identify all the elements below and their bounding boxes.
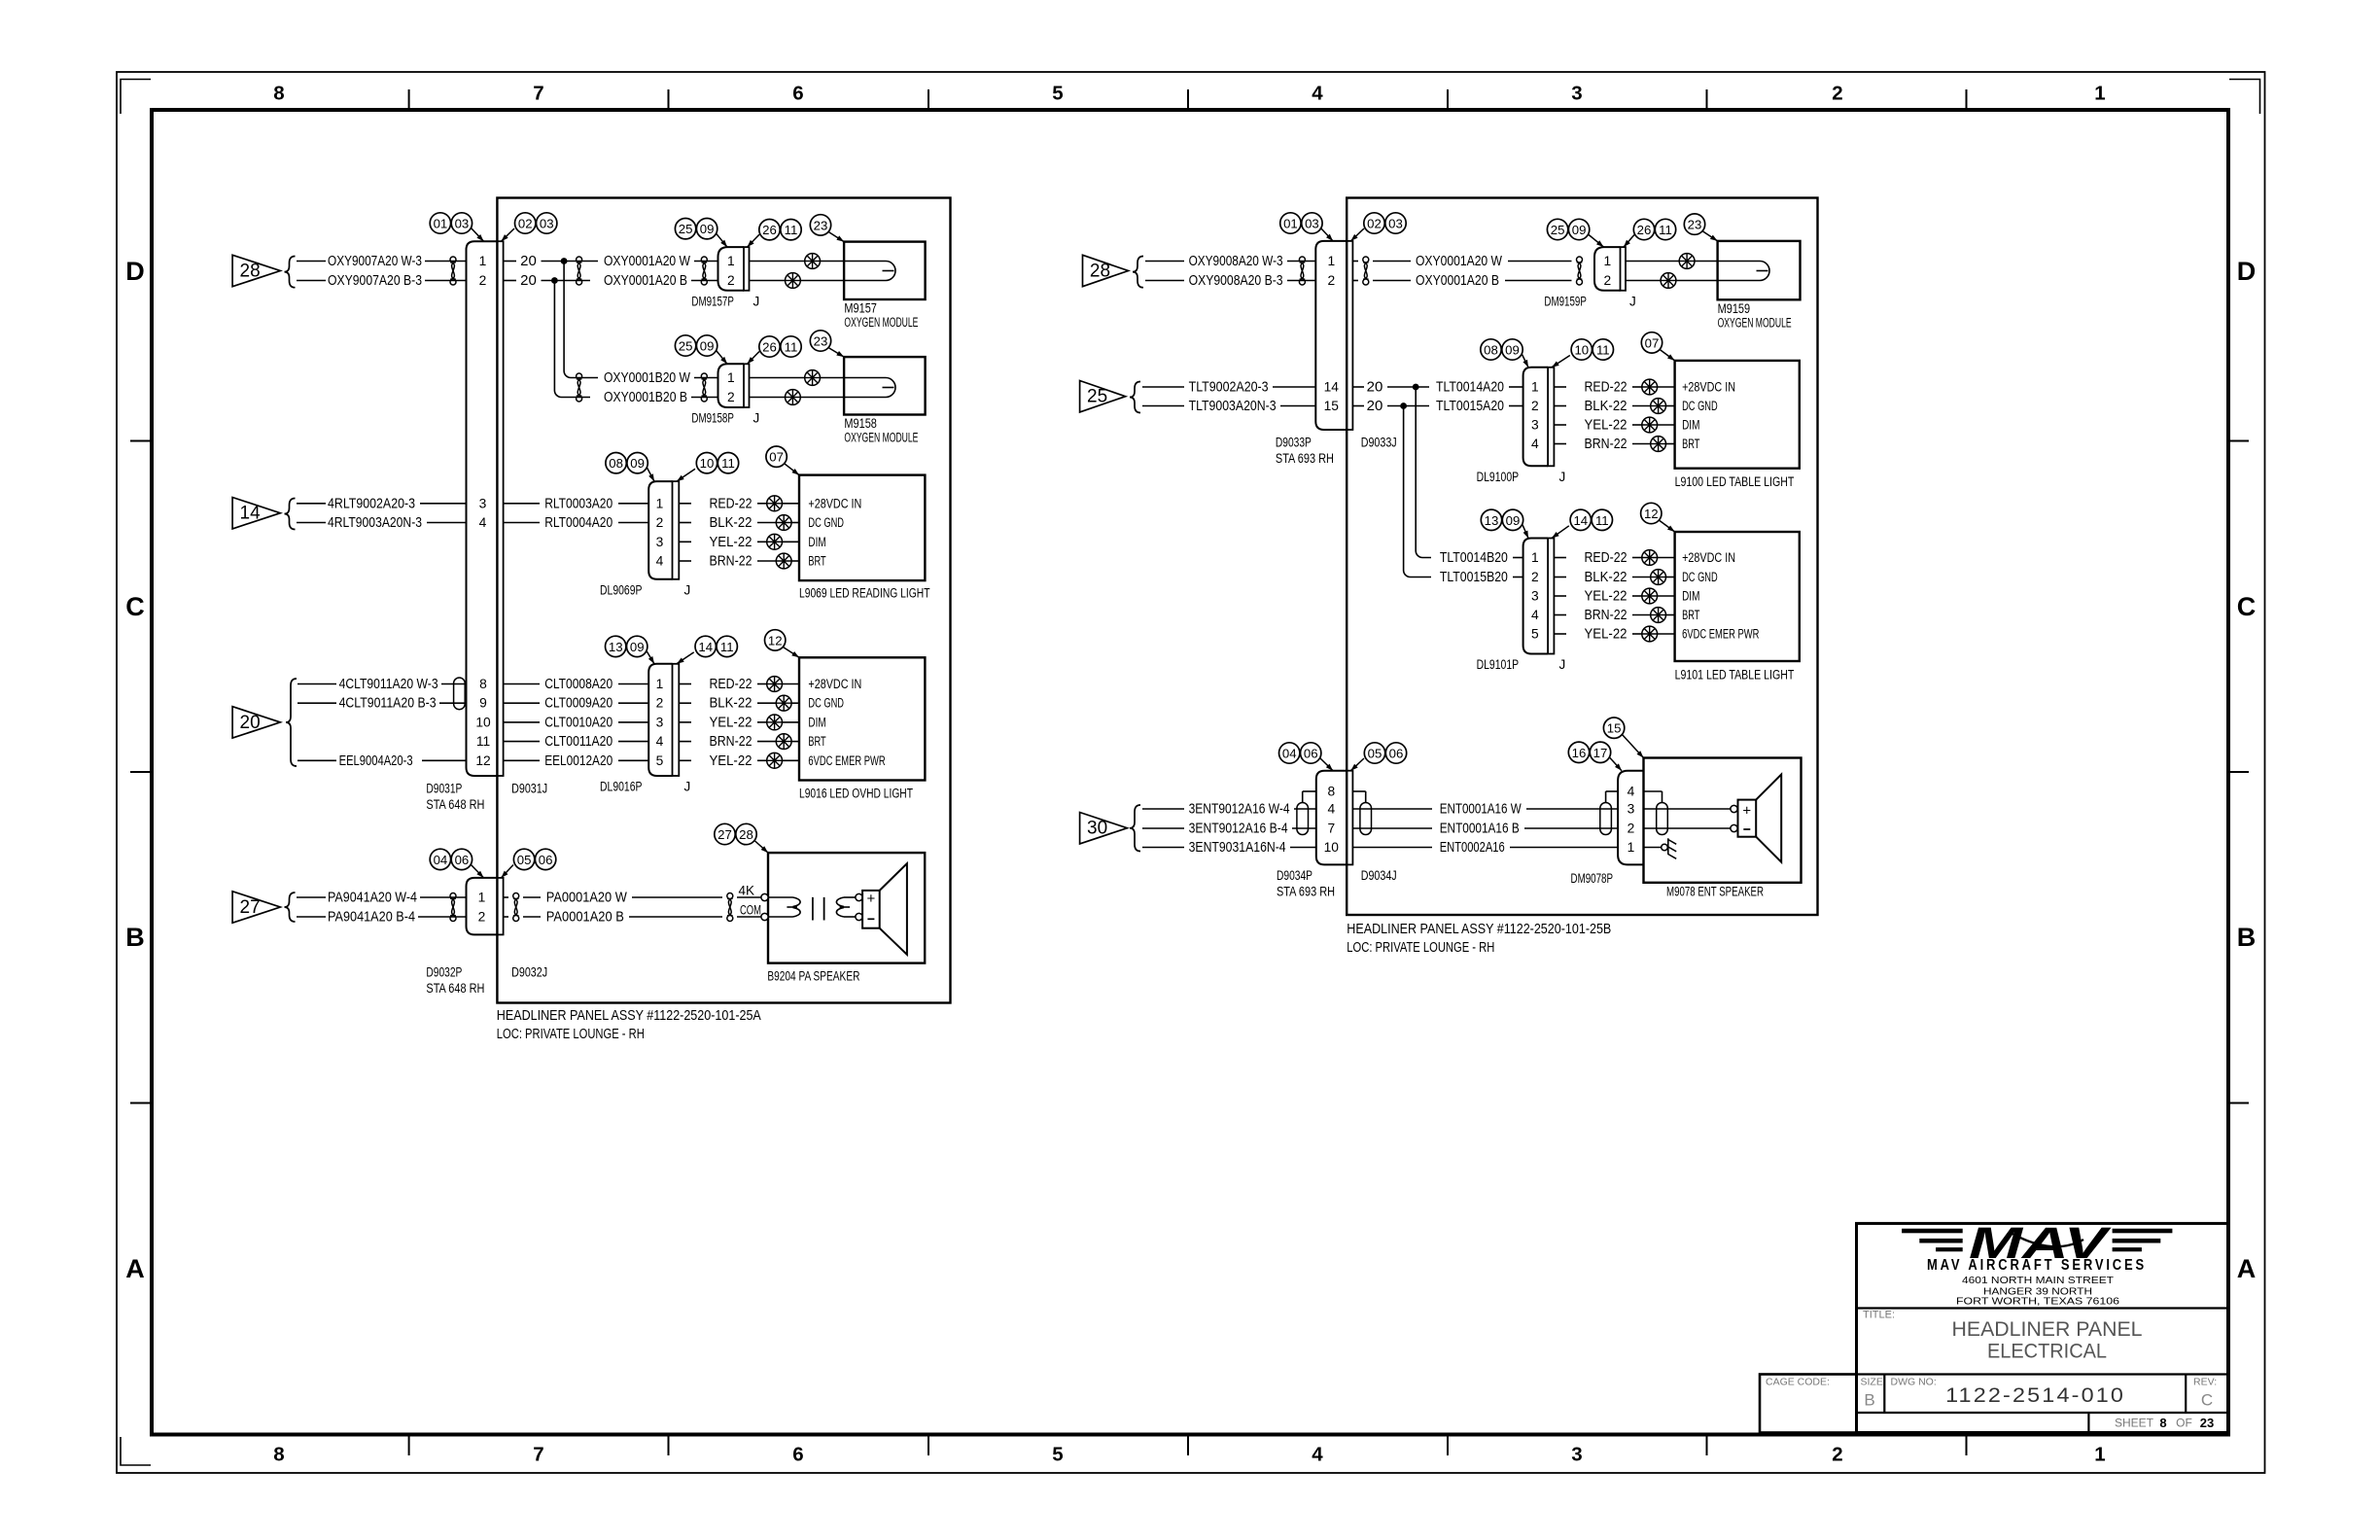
callout circles 25 09 DM9157P [675, 219, 717, 239]
svg-text:PA0001A20 B: PA0001A20 B [546, 909, 624, 926]
svg-text:07: 07 [1645, 335, 1660, 350]
wire PA9041A20 W-4 [297, 890, 467, 906]
splice DL9016P pin 1 [767, 677, 799, 692]
svg-text:J: J [753, 411, 760, 426]
svg-text:27: 27 [717, 827, 732, 842]
svg-text:28: 28 [1090, 262, 1110, 282]
pin numbers DL9100P [1531, 380, 1539, 452]
svg-text:1: 1 [1603, 254, 1611, 268]
wire EEL0012A20 [504, 752, 649, 769]
svg-text:A: A [2237, 1254, 2257, 1283]
connector D9033P shell [1315, 241, 1347, 430]
callout circles 08 09 DL9069P [606, 453, 647, 473]
twisted pair before DM9158P [701, 373, 707, 402]
leader 06 D9034P [1320, 758, 1334, 771]
splice DL9069P pin 3 [767, 534, 799, 549]
twisted pair flag 28 right [1299, 257, 1305, 285]
label headliner panel assy 25B [1347, 921, 1611, 956]
svg-text:DM9078P: DM9078P [1571, 871, 1614, 886]
svg-text:MAV AIRCRAFT SERVICES: MAV AIRCRAFT SERVICES [1927, 1257, 2147, 1274]
svg-text:26: 26 [762, 223, 777, 237]
twisted pair symbol flag28 [450, 257, 456, 285]
REV box [2193, 1377, 2217, 1410]
wire EEL9004A20-3 [297, 752, 467, 769]
callout circles 16 17 [1568, 742, 1610, 762]
headliner panel assembly box 25A [497, 198, 950, 1003]
callout circles 04 06 right [1279, 743, 1321, 763]
svg-text:3ENT9012A16 W-4: 3ENT9012A16 W-4 [1189, 801, 1290, 818]
svg-text:BLK-22: BLK-22 [710, 514, 752, 531]
label headliner panel assy 25A [497, 1007, 761, 1042]
leader 28 to B9204 [754, 841, 768, 854]
label B9204 PA SPEAKER [767, 969, 859, 984]
svg-text:C: C [125, 592, 145, 621]
svg-text:06: 06 [1389, 747, 1404, 761]
svg-text:8: 8 [479, 677, 487, 691]
brace flag 14 [285, 499, 296, 530]
svg-text:+: + [867, 891, 876, 907]
wire 4RLT9002A20-3 [297, 495, 467, 511]
svg-text:YEL-22: YEL-22 [710, 534, 752, 550]
splice DL9101P pin 1 [1642, 550, 1675, 566]
connector DL9101P J side [1548, 539, 1554, 654]
svg-text:CAGE CODE:: CAGE CODE: [1766, 1377, 1830, 1388]
callout circle 12 L9016 LED OVHD LIGHT [765, 630, 786, 650]
svg-text:2: 2 [479, 273, 487, 288]
callouts 14 11 DL9101P [1570, 509, 1612, 530]
svg-text:02: 02 [1367, 217, 1382, 231]
speaker driver M9078 [1738, 775, 1782, 862]
TITLE label and title text [1863, 1310, 2143, 1363]
splice DL9101P pin 5 [1642, 626, 1675, 642]
svg-text:03: 03 [1388, 217, 1403, 231]
svg-text:2: 2 [727, 390, 735, 404]
svg-text:RED-22: RED-22 [710, 495, 752, 511]
svg-text:4: 4 [656, 734, 664, 749]
svg-text:DC GND: DC GND [808, 696, 844, 711]
connector DM9157P shell [718, 247, 745, 291]
svg-text:RLT0004A20: RLT0004A20 [544, 514, 612, 531]
svg-text:09: 09 [700, 339, 715, 354]
svg-text:30: 30 [1087, 819, 1107, 839]
svg-text:1: 1 [727, 254, 735, 268]
svg-text:L9016 LED OVHD LIGHT: L9016 LED OVHD LIGHT [799, 787, 913, 801]
flag 20 [232, 707, 280, 738]
svg-text:6VDC EMER PWR: 6VDC EMER PWR [808, 753, 885, 768]
svg-text:STA 693 RH: STA 693 RH [1276, 451, 1334, 466]
svg-text:OXY0001B20 B: OXY0001B20 B [604, 389, 687, 405]
svg-text:CLT0008A20: CLT0008A20 [544, 676, 612, 692]
svg-text:TLT0014A20: TLT0014A20 [1436, 379, 1504, 396]
splice symbol M9158 wire2 [750, 390, 845, 405]
connector DL9100P J side [1548, 367, 1554, 467]
svg-text:OXY9008A20 W-3: OXY9008A20 W-3 [1189, 253, 1283, 269]
pin numbers DL9016P [656, 677, 664, 768]
callout circle 23 M9158 [810, 331, 830, 351]
filament loop M9157 [844, 262, 895, 281]
svg-text:J: J [684, 582, 691, 597]
connector D9032J [497, 878, 503, 935]
pin numbers DM9159P [1603, 254, 1611, 288]
svg-text:4: 4 [1627, 785, 1635, 799]
svg-text:3: 3 [1627, 802, 1635, 817]
svg-text:09: 09 [630, 456, 645, 471]
svg-text:BRN-22: BRN-22 [710, 733, 752, 750]
wire YEL-22 pin 3 DL9100P [1554, 417, 1641, 434]
svg-text:L9100 LED TABLE LIGHT: L9100 LED TABLE LIGHT [1675, 474, 1795, 489]
labels D9034P STA 693 RH [1277, 868, 1335, 899]
svg-text:11: 11 [720, 640, 734, 654]
pin numbers D9032 [478, 891, 486, 925]
svg-text:5: 5 [1531, 627, 1539, 642]
wire BRN-22 pin 4 of DL9069P [679, 553, 776, 570]
leader to D9033J [1350, 228, 1364, 241]
label J of DL9016P [684, 780, 691, 794]
wire BLK-22 pin 2 DL9100P [1554, 398, 1650, 414]
svg-text:D9034J: D9034J [1361, 868, 1397, 883]
svg-text:RED-22: RED-22 [1585, 549, 1627, 566]
wire YEL-22 pin 3 DL9101P [1554, 588, 1641, 605]
svg-text:+28VDC IN: +28VDC IN [1682, 550, 1735, 565]
svg-text:C: C [2201, 1391, 2213, 1410]
wire CLT0011A20 [504, 733, 649, 750]
wire CLT0010A20 [504, 714, 649, 730]
wire to speaker plus [1644, 808, 1731, 810]
svg-text:HEADLINER PANEL ASSY #1122-252: HEADLINER PANEL ASSY #1122-2520-101-25A [497, 1007, 761, 1024]
svg-text:8: 8 [1327, 785, 1335, 799]
svg-text:4: 4 [656, 554, 664, 569]
label J of DM9158P [753, 411, 760, 426]
DWG NO box [1891, 1377, 2126, 1408]
svg-text:YEL-22: YEL-22 [1585, 626, 1627, 643]
svg-text:RED-22: RED-22 [710, 676, 752, 692]
labels D9032P STA 648 RH [426, 965, 484, 997]
svg-text:BRN-22: BRN-22 [1585, 436, 1627, 452]
wire BRN-22 pin 4 DL9101P [1554, 607, 1650, 623]
MAV logo speed lines right [2113, 1229, 2173, 1252]
svg-text:BLK-22: BLK-22 [710, 695, 752, 712]
svg-text:1: 1 [727, 370, 735, 385]
svg-text:7: 7 [533, 83, 543, 105]
connector D9031P shell [467, 241, 498, 776]
svg-text:OXY0001A20 W: OXY0001A20 W [604, 253, 691, 269]
splice DL9016P pin 3 [767, 715, 799, 730]
label L9069 LED READING LIGHT [799, 586, 930, 601]
wire OXY9007A20 B-3 [297, 272, 467, 289]
svg-text:+28VDC IN: +28VDC IN [1682, 380, 1735, 395]
zone numbers top [273, 83, 2105, 105]
svg-text:06: 06 [1304, 747, 1318, 761]
label M9078 ENT SPEAKER [1666, 885, 1764, 899]
twisted pair after D9033J [1363, 257, 1369, 285]
connector DL9016P shell [648, 664, 672, 776]
wire 3ENT9012A16 W-4 [1142, 801, 1316, 818]
callout circles 05 06 [513, 849, 555, 869]
label D9032J [511, 965, 547, 980]
MAV AIRCRAFT SERVICES text [1927, 1257, 2147, 1274]
svg-text:M9157: M9157 [844, 301, 877, 316]
svg-text:3: 3 [656, 715, 664, 729]
address lines [1956, 1276, 2120, 1308]
cage code box [1760, 1375, 1857, 1433]
twisted pair before B9204 [727, 893, 733, 922]
wire 20 gauge pin15 [1352, 398, 1429, 414]
svg-text:3: 3 [1571, 1444, 1582, 1466]
svg-text:4: 4 [1312, 1444, 1323, 1466]
wire BLK-22 pin 2 of DL9069P [679, 514, 776, 531]
svg-text:M9158: M9158 [844, 416, 877, 431]
splice M9159 wire2 [1626, 273, 1718, 289]
svg-text:+28VDC IN: +28VDC IN [808, 496, 861, 510]
brace flag 25 right [1130, 382, 1140, 413]
svg-text:TLT0014B20: TLT0014B20 [1440, 549, 1508, 566]
label COM [740, 902, 761, 917]
wire ENT0001A16 W [1352, 801, 1618, 818]
svg-text:DM9157P: DM9157P [691, 294, 734, 308]
wire RLT0004A20 [504, 514, 649, 531]
module box M9157 [844, 242, 926, 299]
svg-text:20: 20 [1367, 398, 1383, 414]
connector DM9159P J side [1621, 247, 1627, 291]
svg-text:1: 1 [656, 677, 664, 691]
label 4K [738, 883, 754, 897]
leader P DL9101P [1522, 525, 1528, 539]
svg-text:LOC: PRIVATE LOUNGE - RH: LOC: PRIVATE LOUNGE - RH [497, 1026, 645, 1042]
svg-text:1: 1 [2094, 1444, 2105, 1466]
wire TLT9002A20-3 [1142, 379, 1315, 396]
svg-text:26: 26 [1637, 223, 1652, 237]
chassis ground symbol [1668, 838, 1676, 858]
svg-text:ELECTRICAL: ELECTRICAL [1987, 1341, 2107, 1363]
svg-text:BRT: BRT [808, 554, 825, 569]
wire 3ENT9012A16 B-4 [1142, 821, 1316, 837]
wire OXY0001A20 W [604, 253, 718, 269]
twisted pair after D9032J [513, 893, 519, 922]
leader to D9031J [502, 228, 515, 241]
leader DL9016P J [677, 652, 694, 664]
svg-text:1: 1 [479, 254, 487, 268]
junction node pin14 [1413, 384, 1419, 391]
svg-text:14: 14 [1573, 513, 1588, 528]
svg-text:OXY0001B20 W: OXY0001B20 W [604, 369, 691, 386]
label DL9069P [600, 582, 643, 597]
svg-text:SIZE: SIZE [1861, 1377, 1883, 1388]
zone letters left [125, 257, 145, 1283]
pin numbers DL9069P [656, 496, 664, 568]
splice M9159 wire1 [1626, 254, 1718, 269]
junction node pin15 [1400, 402, 1407, 409]
speaker box B9204 [768, 853, 925, 963]
splice symbol M9157 wire2 [750, 273, 845, 289]
wire PA0001A20 B [504, 909, 765, 926]
speaker driver B9204 [862, 863, 907, 955]
wire OXY9007A20 W-3 [297, 253, 467, 269]
svg-text:10: 10 [700, 456, 715, 471]
svg-text:OXY9008A20 B-3: OXY9008A20 B-3 [1189, 272, 1283, 289]
svg-text:OXYGEN MODULE: OXYGEN MODULE [1718, 315, 1792, 330]
label D9034J [1361, 868, 1397, 883]
svg-text:J: J [753, 294, 760, 308]
svg-text:14: 14 [698, 640, 713, 654]
svg-text:J: J [684, 780, 691, 794]
wire OXY0001B20 B [604, 389, 718, 405]
splice DL9016P pin 4 [776, 734, 799, 750]
callout circle 23 M9157 [810, 215, 830, 235]
pin numbers D9031 [475, 254, 491, 768]
label J of DM9159P [1629, 294, 1636, 308]
wire ENT0001A16 B [1352, 821, 1618, 837]
filament loop M9159 [1718, 262, 1769, 281]
jumper pin4 to pair DM9078P side [1606, 791, 1619, 802]
svg-text:D9033P: D9033P [1276, 436, 1312, 450]
wire 20 gauge pin14 [1352, 379, 1429, 396]
leader 15 M9078 box [1622, 734, 1644, 758]
svg-text:PA0001A20 W: PA0001A20 W [546, 890, 628, 906]
zone tick marks top/bottom [409, 89, 1967, 1455]
title block divider lines [1857, 1309, 2228, 1433]
callouts 13 09 DL9101P [1481, 509, 1522, 530]
svg-text:3ENT9012A16 B-4: 3ENT9012A16 B-4 [1189, 821, 1288, 837]
title block outer box [1857, 1223, 2228, 1432]
wire BLK-22 pin 2 DL9101P [1554, 569, 1650, 585]
svg-text:27: 27 [240, 897, 261, 918]
wire drop to OXY0001B20 W [564, 262, 598, 378]
callout circle 15 [1603, 717, 1624, 738]
svg-text:6VDC EMER PWR: 6VDC EMER PWR [1682, 627, 1759, 642]
svg-text:DL9016P: DL9016P [600, 780, 643, 794]
svg-text:03: 03 [1305, 217, 1319, 231]
splice DL9069P pin 2 [776, 515, 799, 531]
svg-text:DM9159P: DM9159P [1544, 294, 1587, 308]
texts inside L9101 LED TABLE LIGHT [1682, 550, 1759, 642]
splice DL9016P pin 5 [767, 752, 799, 768]
svg-text:YEL-22: YEL-22 [1585, 588, 1627, 605]
callout circle 07 L9069 LED READING LIGHT [766, 446, 787, 467]
svg-text:DL9100P: DL9100P [1477, 470, 1520, 484]
svg-text:STA 648 RH: STA 648 RH [426, 797, 484, 812]
callout circles 25 09 right [1547, 219, 1589, 239]
MAV logo speed lines left [1902, 1229, 1963, 1252]
svg-text:DWG NO:: DWG NO: [1891, 1377, 1937, 1388]
svg-text:TLT0015A20: TLT0015A20 [1436, 398, 1504, 414]
brace flag 28 right [1133, 257, 1143, 288]
svg-text:2: 2 [727, 273, 735, 288]
leader J DL9100P [1552, 356, 1570, 367]
svg-text:B: B [2237, 923, 2257, 952]
label M9157 [844, 301, 918, 331]
svg-text:2: 2 [656, 696, 664, 711]
pin numbers DM9078P [1627, 785, 1635, 856]
svg-text:7: 7 [1327, 822, 1335, 836]
svg-text:3ENT9031A16N-4: 3ENT9031A16N-4 [1189, 839, 1286, 856]
svg-text:DC GND: DC GND [808, 515, 844, 530]
svg-text:28: 28 [240, 262, 261, 282]
wire TLT0014A20 [1436, 379, 1523, 396]
connector D9031J [497, 241, 503, 776]
svg-text:ENT0001A16 B: ENT0001A16 B [1440, 821, 1520, 837]
svg-text:5: 5 [656, 753, 664, 768]
flag 30 right [1080, 813, 1128, 844]
svg-text:M9159: M9159 [1718, 301, 1751, 316]
svg-text:A: A [125, 1254, 145, 1283]
svg-text:3: 3 [479, 496, 487, 510]
svg-text:REV:: REV: [2193, 1377, 2217, 1388]
wire drop to OXY0001B20 B [554, 281, 590, 398]
svg-text:9: 9 [479, 696, 487, 711]
svg-text:2: 2 [656, 515, 664, 530]
label D9033J [1361, 436, 1397, 450]
svg-text:20: 20 [240, 713, 261, 733]
svg-text:10: 10 [1574, 343, 1589, 358]
wire RLT0003A20 [504, 495, 649, 511]
leader 23 M9159 [1702, 231, 1718, 241]
leader to L9016 LED OVHD LIGHT [783, 647, 799, 657]
label J of DL9100P [1559, 470, 1566, 484]
label DM9157P [691, 294, 734, 308]
box L9101 LED TABLE LIGHT [1675, 532, 1800, 661]
svg-text:11: 11 [1596, 343, 1610, 358]
wire 4RLT9003A20N-3 [297, 514, 467, 531]
wire YEL-22 pin 5 of DL9016P [679, 752, 766, 769]
svg-text:8: 8 [2159, 1416, 2166, 1430]
module box M9159 [1718, 241, 1801, 299]
svg-text:01: 01 [434, 217, 448, 231]
leader 09 to DM9157P [717, 233, 727, 247]
svg-text:1: 1 [1531, 550, 1539, 565]
svg-text:23: 23 [814, 334, 828, 349]
svg-text:15: 15 [1324, 399, 1340, 413]
svg-text:6: 6 [792, 83, 803, 105]
svg-text:3: 3 [1531, 418, 1539, 433]
wire OXY0001A20 W right [1352, 253, 1571, 269]
leader 05 to D9032J [502, 865, 514, 878]
svg-text:TLT9002A20-3: TLT9002A20-3 [1189, 379, 1269, 396]
svg-text:PA9041A20 W-4: PA9041A20 W-4 [328, 890, 417, 906]
svg-text:CLT0010A20: CLT0010A20 [544, 714, 612, 730]
label DL9100P [1477, 470, 1520, 484]
svg-text:6: 6 [792, 1444, 803, 1466]
svg-text:26: 26 [762, 340, 777, 355]
connector DL9069P J side [673, 481, 680, 579]
pin numbers DM9157P [727, 254, 735, 288]
label J of DM9157P [753, 294, 760, 308]
svg-text:2: 2 [478, 910, 486, 925]
pin numbers D9033 [1324, 254, 1340, 413]
svg-text:YEL-22: YEL-22 [710, 752, 752, 769]
wire BRN-22 pin 4 DL9100P [1554, 436, 1650, 452]
svg-text:08: 08 [1484, 343, 1498, 358]
svg-text:16: 16 [1572, 746, 1587, 760]
leader 26 DM9159P [1624, 235, 1634, 248]
flag 25 right [1080, 381, 1126, 412]
svg-text:4CLT9011A20 B-3: 4CLT9011A20 B-3 [339, 695, 437, 712]
svg-text:CLT0011A20: CLT0011A20 [544, 733, 612, 750]
svg-text:BRT: BRT [1682, 437, 1699, 451]
callout 12 L9101 LED TABLE LIGHT [1641, 503, 1662, 523]
callout circles 02 03 [515, 213, 557, 233]
svg-text:06: 06 [455, 853, 470, 867]
svg-text:OF: OF [2176, 1417, 2192, 1430]
transformer primary coil [768, 897, 800, 917]
pin numbers DL9101P [1531, 550, 1539, 642]
svg-text:BRN-22: BRN-22 [1585, 607, 1627, 623]
svg-text:8: 8 [273, 83, 284, 105]
svg-text:4CLT9011A20 W-3: 4CLT9011A20 W-3 [339, 676, 438, 692]
svg-text:D9031J: D9031J [511, 782, 547, 796]
connector DM9158P J side [744, 364, 750, 407]
wire OXY0001A20 B [604, 272, 718, 289]
headliner panel assembly box 25B [1347, 198, 1817, 916]
